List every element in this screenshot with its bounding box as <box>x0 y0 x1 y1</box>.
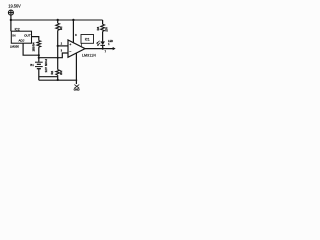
output arrow <box>113 47 116 50</box>
svg-text:LM311N: LM311N <box>82 54 96 58</box>
label LED <box>108 40 113 46</box>
resistor R1 <box>56 23 60 30</box>
wire R1 bottom to R2 top <box>57 30 59 69</box>
ground <box>74 85 79 89</box>
svg-text:R4: R4 <box>32 42 36 46</box>
wire op-amp output <box>85 48 113 50</box>
wire terminal to IC2 IN <box>10 15 12 31</box>
node ADJ junction <box>38 54 40 56</box>
wire op-amp ground pin <box>75 53 77 84</box>
label R3 <box>96 26 109 31</box>
LED D1 <box>100 41 105 45</box>
wire top supply rail <box>11 19 103 21</box>
pin 8 <box>75 34 77 37</box>
node output junction <box>102 48 104 50</box>
wire IC2 ADJ <box>23 43 39 55</box>
wire battery plus to inverting input <box>39 53 68 58</box>
svg-text:OUT: OUT <box>24 34 31 38</box>
wire R1 top lead <box>57 20 59 23</box>
pin 2 <box>61 42 63 45</box>
wire battery minus down <box>38 69 40 81</box>
wire R4 to battery <box>38 47 40 62</box>
node battery plus <box>38 57 40 59</box>
pin 3 <box>61 49 63 52</box>
resistor R3 <box>101 24 105 31</box>
label LM311N <box>82 54 96 58</box>
svg-text:19.56V: 19.56V <box>8 3 21 8</box>
svg-text:IN: IN <box>12 34 15 38</box>
label R1 <box>59 26 63 30</box>
pin 7 <box>105 50 107 53</box>
svg-text:IC2: IC2 <box>15 28 20 32</box>
svg-text:2k2: 2k2 <box>59 70 63 75</box>
resistor R2 <box>56 70 60 76</box>
svg-text:12V NiCd: 12V NiCd <box>44 59 48 73</box>
wire supply to R3 <box>102 20 104 24</box>
supply terminal <box>8 10 13 15</box>
LED emission arrows <box>96 41 100 46</box>
label LM350 <box>10 44 20 48</box>
wire R2 bottom to rail <box>57 75 59 80</box>
wire R3 to LED <box>102 31 104 41</box>
resistor R4 <box>37 41 41 48</box>
node R1 top <box>57 19 59 21</box>
label IC2 <box>15 28 20 32</box>
op-amp U1 triangle <box>68 40 85 57</box>
node non-inverting tap <box>57 45 59 47</box>
node R2 ground <box>57 79 59 81</box>
svg-text:270: 270 <box>105 27 109 32</box>
svg-text:ADJ: ADJ <box>18 39 24 43</box>
wire battery minus to R2 bottom <box>39 76 58 78</box>
label box IC1 <box>81 35 94 44</box>
wire IC2 OUT to R4 <box>32 37 39 41</box>
label 12V NiCd <box>44 59 48 73</box>
svg-text:R1: R1 <box>59 26 63 30</box>
svg-text:1R0: 1R0 <box>32 46 36 51</box>
battery B1 <box>35 62 43 68</box>
svg-text:R2: R2 <box>50 70 54 74</box>
wire tap to non-inverting input <box>58 45 68 47</box>
label GND <box>74 87 80 91</box>
label B1 <box>30 63 34 67</box>
node op-amp V+ <box>72 19 74 21</box>
node supply junction <box>10 19 12 21</box>
supply voltage label 19.56V <box>8 3 21 8</box>
regulator IC2 box <box>11 31 31 43</box>
label R4 <box>32 42 36 51</box>
minus input mark <box>69 51 71 53</box>
svg-text:GND: GND <box>74 87 80 91</box>
leader IC1 to op-amp <box>80 43 82 47</box>
wire V+ to op-amp <box>72 20 74 44</box>
svg-text:IC1: IC1 <box>85 38 90 42</box>
node divider crossover <box>57 57 59 59</box>
wire LED cathode <box>102 45 104 48</box>
svg-text:B1: B1 <box>30 63 34 67</box>
svg-text:R3: R3 <box>96 26 100 30</box>
plus input mark <box>69 43 71 45</box>
label R2 <box>50 70 63 75</box>
svg-text:LM350: LM350 <box>10 44 20 48</box>
wire ground rail <box>39 79 77 81</box>
